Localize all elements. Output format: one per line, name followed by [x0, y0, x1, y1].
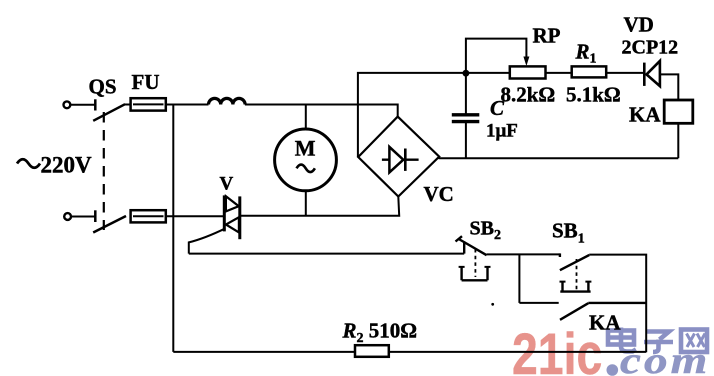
capacitor C: [452, 115, 480, 122]
svg-text:2CP12: 2CP12: [622, 37, 679, 59]
terminal upper input: [64, 101, 71, 108]
svg-text:VD: VD: [624, 13, 654, 37]
bridge rectifier VC: [358, 117, 439, 197]
wire vertical drop to bottom control rail: [172, 105, 174, 352]
svg-text:VC: VC: [424, 182, 454, 206]
contact KA (NO): [560, 303, 646, 320]
wire dc mid rail: [439, 156, 679, 159]
svg-text:1μF: 1μF: [486, 121, 518, 142]
node junction dot: [463, 70, 470, 77]
wire seal rail left: [519, 302, 558, 304]
terminal lower input: [64, 213, 71, 220]
wire SB2 to SB1: [487, 253, 560, 255]
svg-text:R2 510Ω: R2 510Ω: [342, 319, 418, 347]
wire motor top feed: [305, 105, 307, 130]
wire capacitor top: [465, 73, 467, 114]
switch QS pole 1: [93, 99, 125, 121]
wire control top rail: [358, 73, 644, 157]
wire RP wiper loop with arrow: [466, 39, 530, 74]
button SB1 (NO): [560, 253, 592, 291]
wire bottom rail: [173, 351, 646, 353]
svg-text:R1: R1: [575, 40, 597, 67]
wire triac to bridge bottom: [240, 197, 399, 216]
inductor: [209, 98, 246, 104]
wire diode to relay: [660, 74, 678, 100]
potentiometer RP: [510, 66, 546, 78]
wire top rail from FU1 to inductor: [166, 104, 209, 106]
watermark is drawn first (background) inside this unlabeled group: [512, 322, 710, 376]
diode VD: [644, 61, 660, 86]
svg-text:SB2: SB2: [470, 218, 501, 244]
svg-text:FU: FU: [132, 70, 160, 94]
motor M: [275, 129, 337, 191]
svg-text:RP: RP: [533, 24, 561, 48]
svg-text:SB1: SB1: [552, 219, 585, 247]
resistor R2: [355, 345, 389, 357]
wire gate rail to SB2: [189, 253, 464, 255]
svg-text:M: M: [295, 136, 316, 161]
svg-text:com: com: [620, 340, 710, 376]
switch QS pole 2: [93, 210, 126, 232]
wire top rail from inductor to bridge: [245, 105, 398, 118]
svg-text:QS: QS: [89, 75, 117, 99]
svg-text:KA: KA: [589, 311, 621, 335]
switch QS mechanical link (dashed): [103, 112, 105, 230]
label ~220V: [17, 159, 40, 168]
wire branch down from junction: [518, 254, 520, 303]
fuse FU2: [131, 210, 166, 222]
svg-text:C: C: [490, 96, 505, 120]
node speck: [491, 303, 494, 306]
wire capacitor bottom: [465, 122, 467, 159]
svg-text:220V: 220V: [41, 153, 93, 178]
wire gate of triac: [189, 228, 226, 253]
relay coil KA: [664, 100, 693, 123]
svg-text:8.2kΩ: 8.2kΩ: [501, 83, 556, 107]
svg-text:5.1kΩ: 5.1kΩ: [566, 83, 621, 107]
fuse FU1: [131, 98, 166, 110]
svg-text:KA: KA: [629, 103, 661, 127]
wire motor bottom: [305, 191, 307, 216]
wire: [70, 104, 95, 106]
wire FU2 to triac: [166, 215, 225, 217]
button SB2 (NC): [456, 236, 491, 280]
wire: [124, 104, 131, 106]
triac V: [224, 195, 240, 239]
wire SB1 right to corner: [589, 255, 646, 353]
svg-text:V: V: [220, 174, 234, 195]
wire relay bottom to dc rail: [677, 123, 679, 158]
resistor R1: [572, 66, 607, 77]
wire: [71, 216, 95, 218]
